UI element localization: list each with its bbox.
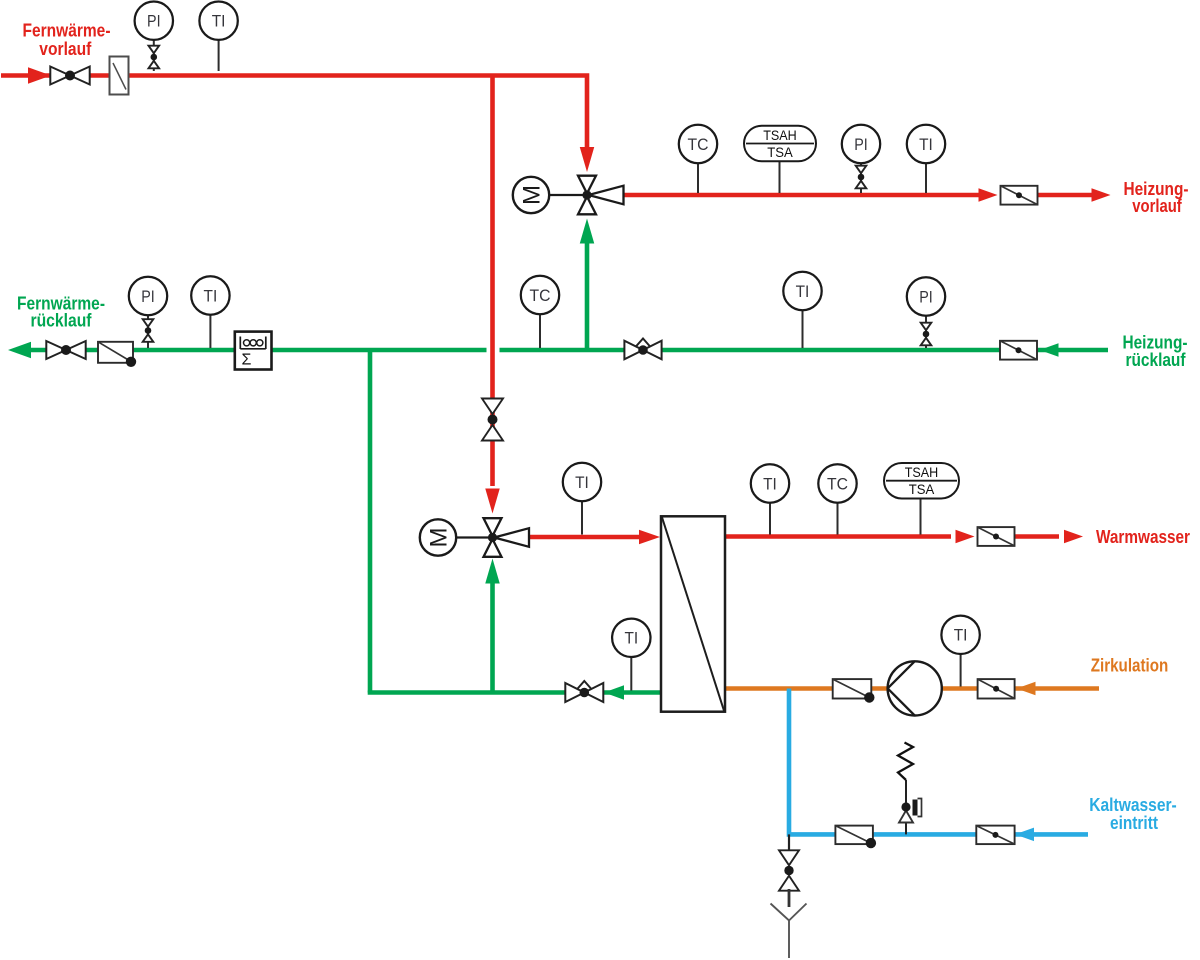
label: Warmwasser [1096, 527, 1190, 547]
arrow: Heizungsvorlauf mid flow [979, 188, 998, 202]
svg-text:TC: TC [688, 135, 709, 154]
arrow: green up into heating 3-way valve [580, 219, 595, 244]
motor actuator M1 for heating 3-way valve [513, 177, 585, 213]
label: Kaltwasser-Eintritt [1089, 795, 1177, 833]
svg-text:TI: TI [575, 473, 589, 492]
svg-text:TI: TI [954, 626, 968, 645]
wire: lower green line from riser to heat exchanger [370, 691, 665, 693]
valve V2: shut-off valve Fernwärme-Rücklauf [46, 341, 85, 359]
svg-text:TSA: TSA [909, 481, 935, 497]
label: Heizung-Rücklauf [1123, 332, 1188, 370]
svg-text:vorlauf: vorlauf [1132, 196, 1182, 216]
svg-text:TSAH: TSAH [905, 464, 939, 480]
svg-text:TI: TI [763, 474, 777, 493]
wire: Kaltwasser blue riser and run [789, 689, 1088, 835]
instrument TI8 on Zirkulation [941, 616, 979, 687]
arrow: primary return out of heat exchanger [604, 685, 624, 700]
arrow: Warmwasser mid flow [956, 530, 975, 544]
instrument TC1 on Heizungsvorlauf [679, 125, 717, 193]
svg-text:TSA: TSA [767, 144, 793, 160]
arrow: Fernwärme-Rücklauf outlet to district [8, 342, 31, 359]
svg-text:Fernwärme-: Fernwärme- [23, 20, 111, 40]
arrow: red down into heating 3-way valve [580, 147, 595, 172]
valve: 3-way mixing valve DHW [484, 518, 530, 557]
check valve: Heizungsrücklauf [1000, 341, 1037, 360]
arrow: Heizungsrücklauf inlet flow [1040, 343, 1059, 357]
svg-text:TI: TI [204, 286, 218, 305]
label: Fernwärme-Rücklauf [17, 294, 105, 331]
pump P1 Zirkulation [888, 661, 942, 715]
check valve: Kaltwasser [976, 826, 1014, 845]
instrument PI4 with gauge valve on Heizungsrücklauf [907, 277, 945, 348]
arrow: Kaltwasser inlet flow [1015, 828, 1034, 842]
arrow: Zirkulation inlet flow [1017, 682, 1036, 696]
wire: drain stem below Kaltwasser elbow [788, 834, 790, 853]
svg-text:TI: TI [624, 629, 638, 648]
drain funnel [771, 904, 807, 959]
check valve: Zirkulation [978, 679, 1015, 698]
instrument TI5 before heat exchanger [563, 463, 601, 535]
svg-text:PI: PI [854, 135, 868, 154]
svg-text:M: M [426, 528, 453, 548]
strainer with drain on Zirkulation [833, 679, 875, 703]
instrument TI6 on HX primary return [612, 619, 650, 691]
wire: green recirculation up into DHW 3-way valve [490, 583, 495, 693]
instrument TI1 on Fernwärme-Vorlauf [199, 2, 237, 72]
instrument PI3 with gauge valve on Fernwärme-Rücklauf [129, 277, 167, 348]
valve V1: shut-off valve Fernwärme-Vorlauf [50, 67, 89, 85]
svg-text:M: M [519, 185, 546, 205]
alarm TSAH/TSA on Warmwasser [884, 463, 959, 535]
instrument TI2 on Heizungsvorlauf [907, 125, 945, 193]
instrument TC3 on Warmwasser [818, 464, 856, 534]
valve: 3-way mixing valve heating circuit [578, 176, 624, 215]
wire: stem from drain valve to funnel [788, 889, 791, 907]
svg-text:Zirkulation: Zirkulation [1091, 656, 1169, 676]
instrument TI4 on Heizungsrücklauf [783, 272, 821, 348]
check valve: Warmwasser [978, 527, 1015, 546]
arrow: Warmwasser outlet [1064, 530, 1083, 544]
svg-text:TC: TC [827, 474, 848, 493]
label: Zirkulation [1091, 656, 1169, 676]
safety valve on Kaltwasser [898, 743, 922, 835]
wire: Fernwärme-Rücklauf green main left part [25, 348, 487, 353]
instrument TC2 on Fernwärme-Rücklauf [521, 276, 559, 348]
label: Fernwärme-Vorlauf [23, 20, 111, 59]
valve: regulating valve on red branch [482, 399, 503, 441]
svg-text:TI: TI [796, 282, 810, 301]
wire: Zirkulation orange line [725, 686, 1099, 691]
svg-text:rücklauf: rücklauf [1126, 350, 1187, 370]
arrow: flow into Fernwärme-Vorlauf [28, 67, 51, 84]
wire: Warmwasser after check valve [1015, 534, 1060, 539]
wire: red from DHW 3-way valve to heat exchanger [530, 535, 640, 540]
instrument PI1 with gauge valve on Fernwärme-Vorlauf [135, 2, 173, 72]
strainer: dirt trap Fernwärme-Vorlauf [110, 57, 129, 95]
alarm TSAH/TSA on Heizungsvorlauf [744, 126, 816, 193]
instrument TI3 on Fernwärme-Rücklauf [191, 276, 229, 348]
valve: balancing valve HX primary return [565, 681, 603, 702]
arrow: green up into DHW 3-way valve [485, 559, 500, 584]
svg-text:vorlauf: vorlauf [39, 39, 92, 59]
wire: green vertical HX primary return riser [368, 350, 373, 693]
svg-text:Warmwasser: Warmwasser [1096, 527, 1190, 547]
wire: red branch tee down to DHW 3-way valve [490, 76, 495, 487]
svg-text:TC: TC [530, 286, 551, 305]
motor actuator M2 for DHW 3-way valve [420, 519, 491, 555]
svg-text:Kaltwasser-: Kaltwasser- [1089, 795, 1177, 815]
heat meter integrator [235, 332, 272, 370]
wire: Heizungsvorlauf red to heating circuit [623, 193, 980, 198]
strainer with drain on Kaltwasser [835, 826, 876, 849]
svg-text:rücklauf: rücklauf [31, 311, 93, 331]
svg-text:TSAH: TSAH [763, 127, 797, 143]
heat exchanger W1 [661, 516, 725, 711]
svg-text:TI: TI [919, 135, 933, 154]
svg-text:Σ: Σ [242, 352, 252, 369]
svg-text:TI: TI [212, 12, 226, 31]
flow sensor of heat meter [98, 342, 136, 367]
wire: Warmwasser red from heat exchanger [725, 534, 951, 539]
instrument TI7 on Warmwasser [751, 464, 789, 534]
wire: Fernwärme-Rücklauf / Heizungsrücklauf green right part [500, 348, 1109, 353]
label: Heizung-Vorlauf [1124, 179, 1189, 216]
check valve: Heizungsvorlauf [1001, 186, 1038, 205]
svg-text:eintritt: eintritt [1110, 813, 1158, 833]
svg-text:PI: PI [141, 287, 155, 306]
svg-text:PI: PI [147, 12, 161, 31]
arrow: Heizungsvorlauf outlet [1092, 188, 1111, 202]
svg-text:PI: PI [919, 287, 933, 306]
valve: balancing valve Heizungsrücklauf [624, 339, 661, 360]
valve: drain valve on Kaltwasser stem [779, 850, 799, 890]
arrow: red into heat exchanger [639, 530, 660, 545]
wire: Heizungsvorlauf after check valve [1038, 193, 1093, 198]
arrow: red down into DHW 3-way valve [485, 489, 500, 514]
wire: green up into heating 3-way valve [585, 243, 590, 350]
instrument PI2 with gauge valve on Heizungsvorlauf [842, 125, 880, 193]
wire: Fernwärme-Vorlauf red supply main, runs right then elbows down at x=587 [1, 76, 587, 148]
